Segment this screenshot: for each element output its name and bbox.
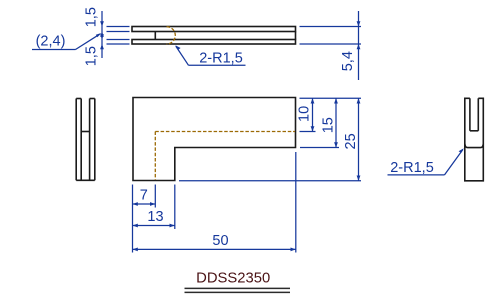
right side view: fork outer outline (open at slot top)	[465, 98, 484, 181]
top view: hidden radius arc (2-R1.5) orange dashed	[167, 27, 176, 44]
top view: web line (groove bottom edge at 7mm)	[154, 32, 156, 40]
dimension 10	[297, 98, 315, 131]
top view: right end closure	[295, 32, 297, 40]
main view: hidden groove bottom, vertical dashed	[154, 132, 156, 181]
reference dimension (2,4) with leader	[32, 33, 101, 50]
left side view: bottom edge	[76, 179, 95, 181]
dimension 25	[343, 98, 361, 181]
top view: upper strip of H-profile bar	[132, 27, 296, 32]
left side view: outer right wall	[90, 99, 95, 181]
dimension 50	[133, 233, 296, 251]
dimension 7	[133, 187, 156, 206]
svg-text:25: 25	[343, 133, 359, 149]
main view: L-shaped outline	[133, 98, 296, 181]
right side view: slot right wall line	[477, 98, 479, 131]
svg-text:15: 15	[320, 117, 336, 133]
svg-text:10: 10	[297, 106, 313, 122]
title underline double rule	[185, 288, 291, 292]
svg-text:(2,4): (2,4)	[36, 34, 66, 50]
arrow tip at top strip top edge (points down)	[100, 21, 104, 26]
leader 2-R1,5 (right side view)	[388, 148, 464, 176]
svg-text:50: 50	[212, 233, 228, 249]
svg-text:13: 13	[147, 209, 163, 225]
main view: hidden groove bottom, horizontal dashed	[155, 131, 295, 133]
left side view: web crossbar	[81, 131, 89, 133]
svg-text:1,5: 1,5	[84, 7, 100, 27]
right-side dimensions extension lines	[179, 98, 361, 181]
dimension 1.5/2.4/1.5 extension lines (left of top view)	[107, 27, 130, 45]
leader 2-R1,5 (top view)	[175, 45, 245, 66]
svg-text:2-R1,5: 2-R1,5	[390, 160, 434, 176]
dimension 5.4 (right of top view)	[300, 11, 362, 80]
right side view: step line with R1.5 fillets	[465, 144, 484, 148]
top view: lower strip of H-profile bar	[132, 40, 296, 45]
arrow tip at lower strip top edge (points down)	[100, 34, 104, 39]
dimension 15	[320, 98, 338, 147]
right side view: slot left wall line	[469, 98, 471, 131]
arrow tip at top strip bottom edge (points up)	[100, 32, 104, 37]
svg-text:DDSS2350: DDSS2350	[196, 271, 270, 287]
svg-text:7: 7	[140, 187, 148, 203]
dimension 13	[133, 209, 175, 227]
bottom dimensions extension lines	[133, 152, 296, 253]
right side view: slot bottom	[470, 130, 478, 132]
svg-text:2-R1,5: 2-R1,5	[199, 51, 243, 67]
svg-text:1,5: 1,5	[83, 46, 99, 66]
left side view: H profile, outer left wall	[76, 99, 81, 181]
arrow tip at lower strip bottom edge (points up)	[100, 44, 104, 49]
dimension line 1.5 stack (vertical at x=102)	[101, 11, 103, 58]
svg-text:5,4: 5,4	[340, 51, 356, 71]
